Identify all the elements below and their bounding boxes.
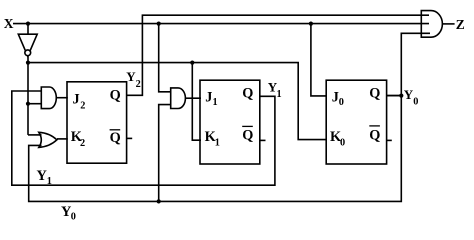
svg-text:0: 0: [340, 137, 345, 148]
svg-text:0: 0: [71, 212, 76, 223]
wire OR output to K2: [57, 138, 68, 140]
svg-text:0: 0: [413, 97, 418, 108]
AND gate A1 (J2 = Y1 AND Xbar): [41, 87, 56, 109]
wire Q0 stub to Y0 node: [386, 95, 401, 97]
svg-text:1: 1: [213, 97, 218, 108]
svg-text:Q: Q: [369, 85, 380, 101]
junction Xbar wire start: [26, 61, 30, 65]
svg-text:J: J: [73, 91, 80, 107]
svg-text:1: 1: [215, 137, 220, 148]
wire Y0 rise to AND2 bottom input: [159, 105, 171, 202]
wire X drop to AND2 top input: [159, 24, 171, 92]
svg-text:2: 2: [80, 138, 85, 149]
svg-text:Z: Z: [456, 17, 465, 32]
wire Qbar2 stub: [127, 137, 132, 139]
wire inverter output down rail: [27, 56, 29, 135]
flip-flop FF0 box: [326, 80, 386, 164]
wire X drop to J0: [311, 24, 327, 96]
svg-text:Q: Q: [110, 130, 121, 146]
svg-text:Q: Q: [242, 85, 253, 101]
svg-text:Q: Q: [242, 127, 253, 143]
svg-text:1: 1: [277, 89, 282, 100]
junction X to AND2 drop: [157, 22, 161, 26]
OR gate O1 (K2 = Xbar OR Y0): [39, 132, 57, 147]
wire OR bottom input down to Y0 run and across to Q0: [29, 96, 402, 202]
svg-text:0: 0: [339, 97, 344, 108]
wire AND2 output to J1: [186, 97, 202, 99]
wire Qbar1 stub: [260, 139, 265, 141]
junction Y0 to AND2 rise: [157, 199, 161, 203]
junction Y0 at Q0: [399, 94, 403, 98]
wire Qbar0 stub: [386, 139, 391, 141]
wire Q2 up and top run to Z gate: [127, 15, 429, 95]
inverter U1 (NOT gate): [18, 34, 37, 56]
svg-text:1: 1: [47, 176, 52, 187]
AND gate Z output: [421, 11, 442, 38]
svg-text:J: J: [205, 89, 212, 105]
wire Xbar down to K1: [192, 63, 201, 141]
wire X input horizontal: [13, 23, 429, 25]
svg-text:X: X: [4, 16, 14, 31]
junction X-inverter: [26, 22, 30, 26]
junction Xbar to AND1 lower input: [26, 102, 30, 106]
wire Z output: [443, 23, 455, 25]
wire OR top input: [28, 134, 42, 136]
wire Y0 up to Z gate input: [401, 33, 430, 95]
junction Xbar to K1 drop: [190, 61, 194, 65]
flip-flop FF1 box: [200, 80, 260, 164]
wire Y1 feedback: AND1 top input, left rail, bottom Y1 run, up to Q1: [12, 91, 275, 185]
wire Xbar horizontal to K0: [28, 63, 327, 140]
wire X down to inverter: [27, 24, 29, 34]
svg-text:2: 2: [136, 79, 141, 90]
wire AND1 lower input: [28, 103, 42, 105]
wire AND1 output to J2: [56, 97, 68, 99]
flip-flop FF2 box: [67, 82, 127, 163]
svg-text:Q: Q: [369, 127, 380, 143]
svg-text:2: 2: [80, 100, 85, 111]
svg-text:Q: Q: [110, 87, 121, 103]
AND gate A2 (J1 = X AND Y0): [171, 88, 186, 109]
junction X to J0 drop: [309, 22, 313, 26]
